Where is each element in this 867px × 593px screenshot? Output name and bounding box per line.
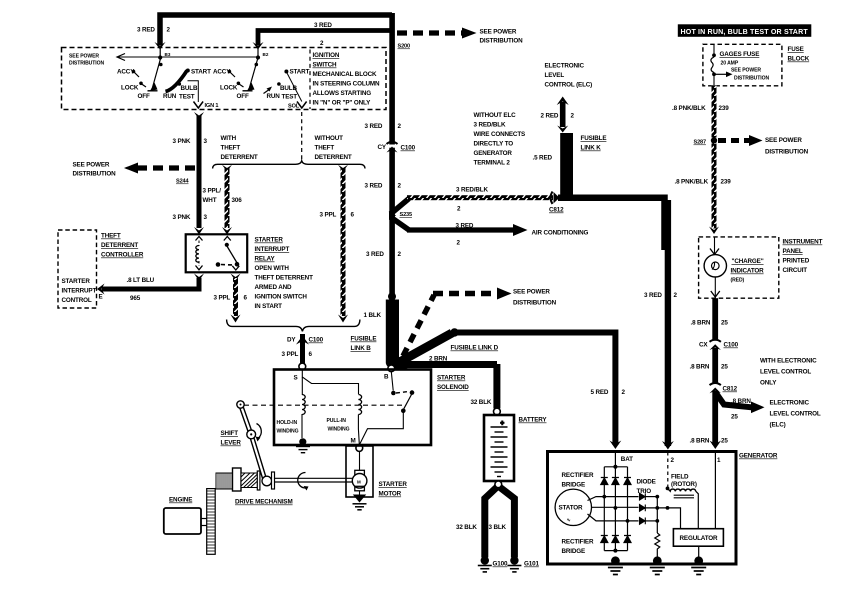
svg-text:FUSE: FUSE xyxy=(788,46,804,53)
svg-text:FUSIBLE: FUSIBLE xyxy=(581,135,607,142)
svg-text:3 RED: 3 RED xyxy=(456,223,474,230)
wire 3 RED (ignition B2 feed) xyxy=(253,31,391,50)
svg-text:LEVEL: LEVEL xyxy=(545,72,565,79)
contact BULB TEST (right switch) xyxy=(277,82,297,100)
svg-text:.8 BRN: .8 BRN xyxy=(690,438,710,445)
svg-text:LOCK: LOCK xyxy=(220,85,238,92)
diode trio xyxy=(640,493,646,524)
svg-text:RELAY: RELAY xyxy=(255,256,276,263)
connector DY C100 xyxy=(287,336,324,345)
wire 3 RED/BLK branch to C812 xyxy=(391,187,554,215)
label field rotor xyxy=(671,474,697,489)
contact START (right switch) xyxy=(284,69,309,76)
rectifier bridge rails xyxy=(604,467,627,551)
svg-text:306: 306 xyxy=(232,197,243,204)
contact LOCK (right switch) xyxy=(220,82,244,92)
svg-text:DIODE: DIODE xyxy=(637,479,656,486)
svg-text:3 PPL: 3 PPL xyxy=(282,351,299,358)
svg-text:239: 239 xyxy=(719,105,730,112)
wire middle phase to regulator xyxy=(668,508,681,529)
svg-text:HOT IN RUN, BULB TEST OR START: HOT IN RUN, BULB TEST OR START xyxy=(681,28,809,36)
ground (resistor) xyxy=(650,556,665,574)
armature shaft to motor xyxy=(275,478,353,482)
svg-text:E: E xyxy=(99,294,103,301)
wire .8 BRN below instrument panel xyxy=(691,298,729,341)
battery negative terminal xyxy=(495,481,502,488)
label starter motor xyxy=(379,481,408,498)
svg-text:S244: S244 xyxy=(176,179,190,185)
ground G101 xyxy=(507,556,539,572)
gages fuse xyxy=(711,45,759,86)
wire 3 PPL without-theft branch xyxy=(320,165,355,323)
label with electronic level control only xyxy=(760,358,817,387)
arrow see power distribution (center dashed) xyxy=(403,288,557,357)
svg-text:2 RED: 2 RED xyxy=(541,113,559,120)
ignition switch box xyxy=(62,48,387,110)
connector CX C100 xyxy=(699,340,739,350)
note without ELC xyxy=(474,112,526,167)
arc run-to-start (left switch) xyxy=(166,71,188,92)
svg-text:3 PPL: 3 PPL xyxy=(214,295,231,302)
svg-text:CY: CY xyxy=(378,144,387,151)
ignition switch pole B3 xyxy=(148,47,171,91)
rotation arrow on shaft xyxy=(298,473,309,491)
svg-text:STARTER: STARTER xyxy=(437,375,466,382)
mechanical dashed link shift lever to contact xyxy=(244,404,402,406)
wire SOL output xyxy=(287,73,307,110)
svg-text:START: START xyxy=(191,69,211,76)
node S287 with arrow see power distribution xyxy=(694,135,809,156)
generator terminal 2 xyxy=(668,452,675,487)
svg-text:B: B xyxy=(384,374,389,381)
generator box xyxy=(548,452,778,565)
wire 306 (3 PPL/WHT) xyxy=(222,165,232,235)
contact RUN (left switch) xyxy=(163,93,177,100)
svg-text:THEFT: THEFT xyxy=(221,145,241,152)
svg-text:.8 BRN: .8 BRN xyxy=(691,320,711,327)
brace with/without theft deterrent xyxy=(213,161,365,169)
relay coil xyxy=(196,237,203,270)
svg-text:DISTRIBUTION: DISTRIBUTION xyxy=(513,300,557,307)
phase junction dots xyxy=(602,495,669,523)
svg-text:ELECTRONIC: ELECTRONIC xyxy=(545,63,585,70)
banner hot in run bulb test or start xyxy=(678,24,812,37)
label starter interrupt relay note xyxy=(255,237,314,311)
label diode trio xyxy=(637,479,656,496)
svg-text:3 RED: 3 RED xyxy=(137,27,155,34)
svg-text:LEVER: LEVER xyxy=(221,440,242,447)
ground G100 xyxy=(478,556,508,572)
flywheel ring gear xyxy=(207,489,216,555)
starter motor enclosure xyxy=(346,446,373,497)
svg-text:WINDING: WINDING xyxy=(328,427,350,433)
brace joining 3 PPL wires xyxy=(227,320,360,332)
svg-text:M: M xyxy=(351,438,356,445)
drive mechanism thrust washer xyxy=(257,471,260,490)
contact OFF (left switch) xyxy=(138,93,150,100)
svg-text:DISTRIBUTION: DISTRIBUTION xyxy=(69,61,104,67)
wire 3 PNK ignition to relay xyxy=(194,112,204,235)
svg-text:OPEN WITH: OPEN WITH xyxy=(255,265,290,272)
svg-text:RECTIFIER: RECTIFIER xyxy=(562,539,594,546)
label hold-in winding xyxy=(277,420,299,435)
svg-text:WITH ELECTRONIC: WITH ELECTRONIC xyxy=(760,358,817,365)
svg-text:GENERATOR: GENERATOR xyxy=(739,453,778,460)
svg-text:SOLENOID: SOLENOID xyxy=(437,384,469,391)
field rotor winding xyxy=(666,487,699,529)
label 3 RED 2 (below C100) xyxy=(365,183,402,190)
svg-text:SEE POWER: SEE POWER xyxy=(69,54,99,60)
wire .8 BRN branch to ELC xyxy=(715,392,764,421)
svg-text:25: 25 xyxy=(721,320,728,327)
svg-text:+: + xyxy=(501,421,505,427)
svg-text:G101: G101 xyxy=(524,561,539,568)
pull-in winding coil xyxy=(358,395,361,445)
drive mechanism collar flange xyxy=(272,472,275,489)
svg-text:PANEL: PANEL xyxy=(783,248,803,255)
svg-text:RUN: RUN xyxy=(267,93,281,100)
wire 3 RED branch to air conditioning xyxy=(391,217,589,247)
generator terminal BAT xyxy=(615,452,633,466)
svg-text:BLOCK: BLOCK xyxy=(788,56,810,63)
svg-text:SHIFT: SHIFT xyxy=(221,430,239,437)
svg-text:3 RED: 3 RED xyxy=(314,22,332,29)
svg-text:3 PNK: 3 PNK xyxy=(173,214,191,221)
svg-text:IGNITION: IGNITION xyxy=(313,52,340,59)
svg-text:FUSIBLE LINK D: FUSIBLE LINK D xyxy=(451,345,499,352)
svg-text:.8 PNK/BLK: .8 PNK/BLK xyxy=(675,179,709,186)
svg-text:LEVEL CONTROL: LEVEL CONTROL xyxy=(770,411,821,418)
wire dashed from SOL to brace xyxy=(301,112,303,160)
svg-text:20 AMP: 20 AMP xyxy=(721,61,739,67)
svg-text:(ROTOR): (ROTOR) xyxy=(671,481,697,488)
svg-text:WHT: WHT xyxy=(203,197,217,204)
svg-text:25: 25 xyxy=(721,364,728,371)
svg-text:C100: C100 xyxy=(401,145,416,152)
svg-text:3 RED/BLK: 3 RED/BLK xyxy=(456,187,488,194)
svg-text:1 BLK: 1 BLK xyxy=(364,312,382,319)
label 3 PPL/WHT 306 xyxy=(203,188,243,205)
drive mechanism pinion collar xyxy=(233,468,242,491)
wire .8 BRN to generator terminal 1 xyxy=(690,391,729,449)
label rectifier bridge (top) xyxy=(562,472,594,489)
svg-text:SEE POWER: SEE POWER xyxy=(73,162,110,169)
svg-text:IGN 1: IGN 1 xyxy=(205,103,219,109)
connector C812 (horizontal) xyxy=(549,192,564,214)
diodes upper bridge xyxy=(601,478,631,485)
svg-text:WIRE CONNECTS: WIRE CONNECTS xyxy=(474,131,526,138)
wire ignition feed line with left arrow xyxy=(117,54,258,61)
label see power distribution (in box) xyxy=(69,54,104,67)
stator xyxy=(555,489,591,525)
svg-text:WINDING: WINDING xyxy=(277,429,299,435)
fusible link K xyxy=(533,133,607,195)
svg-text:REGULATOR: REGULATOR xyxy=(680,535,719,542)
svg-text:DETERRENT: DETERRENT xyxy=(315,154,352,161)
svg-text:ONLY: ONLY xyxy=(760,380,777,387)
svg-text:IN START: IN START xyxy=(255,303,283,310)
svg-text:INDICATOR: INDICATOR xyxy=(731,268,765,275)
wire 32 BLK solenoid B to battery xyxy=(406,364,500,415)
wire 3 BLK battery to G101 xyxy=(489,487,515,558)
svg-text:OFF: OFF xyxy=(237,93,249,100)
node junction at solenoid B xyxy=(386,357,412,371)
svg-text:CIRCUIT: CIRCUIT xyxy=(783,267,808,274)
svg-text:ELECTRONIC: ELECTRONIC xyxy=(770,400,810,407)
hold-in winding coil xyxy=(299,395,306,446)
svg-text:LINK B: LINK B xyxy=(351,345,372,352)
svg-text:DISTRIBUTION: DISTRIBUTION xyxy=(734,76,769,82)
node S235 splice xyxy=(389,211,412,220)
svg-text:CX: CX xyxy=(699,342,708,349)
svg-text:LOCK: LOCK xyxy=(121,85,139,92)
theft deterrent controller box xyxy=(58,230,97,308)
svg-text:239: 239 xyxy=(721,179,732,186)
label ignition switch note xyxy=(310,50,380,110)
contact START (left switch) xyxy=(186,69,211,76)
svg-text:START: START xyxy=(290,69,310,76)
wire 2 RED to ELC xyxy=(541,97,575,133)
svg-text:S200: S200 xyxy=(398,44,411,50)
fusible link D diagonal xyxy=(396,328,499,364)
svg-text:RECTIFIER: RECTIFIER xyxy=(562,472,594,479)
label WITH THEFT DETERRENT xyxy=(221,135,258,161)
svg-text:M: M xyxy=(357,479,361,484)
svg-text:965: 965 xyxy=(130,295,141,302)
fusible link B xyxy=(351,300,400,364)
svg-text:STATOR: STATOR xyxy=(559,505,584,512)
drive mechanism overrunning clutch xyxy=(241,473,258,488)
svg-text:INTERRUPT: INTERRUPT xyxy=(62,288,97,295)
svg-text:IN "N" OR "P" ONLY: IN "N" OR "P" ONLY xyxy=(313,100,372,107)
diodes lower bridge xyxy=(601,536,631,543)
fuse block box xyxy=(703,44,810,86)
rail junction dots xyxy=(613,465,617,553)
svg-text:DRIVE MECHANISM: DRIVE MECHANISM xyxy=(235,499,293,506)
svg-text:3 PPL: 3 PPL xyxy=(320,212,337,219)
contact ACCY (right switch) xyxy=(213,69,235,78)
label 1 BLK xyxy=(364,312,382,319)
engine box xyxy=(164,497,201,535)
wire .8 BRN to C812 xyxy=(690,348,729,383)
svg-text:WITH: WITH xyxy=(221,135,237,142)
resistor xyxy=(655,533,660,558)
wire 3 RED top left (ignition B3 feed) xyxy=(155,15,393,50)
svg-text:STARTER: STARTER xyxy=(62,278,91,285)
svg-text:.8 BRN: .8 BRN xyxy=(731,398,751,405)
svg-text:3 RED: 3 RED xyxy=(644,292,662,299)
svg-text:3 PNK: 3 PNK xyxy=(173,138,191,145)
svg-text:S235: S235 xyxy=(400,212,413,218)
svg-text:BAT: BAT xyxy=(621,456,633,463)
battery plates xyxy=(491,421,508,477)
wire .8 LT BLU relay to controller xyxy=(97,274,204,303)
svg-text:C812: C812 xyxy=(723,386,738,393)
svg-text:HOLD-IN: HOLD-IN xyxy=(277,420,298,426)
svg-text:IGNITION SWITCH: IGNITION SWITCH xyxy=(255,294,308,301)
label charge indicator xyxy=(731,258,765,284)
starter interrupt relay box xyxy=(186,234,248,272)
svg-text:THEFT DETERRENT: THEFT DETERRENT xyxy=(255,275,314,282)
svg-text:FUSIBLE: FUSIBLE xyxy=(351,336,377,343)
svg-text:(RED): (RED) xyxy=(731,278,745,284)
svg-text:PULL-IN: PULL-IN xyxy=(327,418,347,424)
regulator box xyxy=(673,529,723,547)
svg-text:C100: C100 xyxy=(309,337,324,344)
solenoid terminal M xyxy=(351,438,363,452)
svg-text:32 BLK: 32 BLK xyxy=(471,399,492,406)
label shift lever xyxy=(221,430,242,447)
solenoid terminal S xyxy=(294,375,298,382)
label 3 RED 2 (above 1 BLK) xyxy=(366,251,402,258)
arrow see power distribution (fuse) xyxy=(716,68,770,82)
svg-text:B3: B3 xyxy=(165,52,171,57)
svg-text:DISTRIBUTION: DISTRIBUTION xyxy=(480,38,524,45)
svg-text:CONTROL (ELC): CONTROL (ELC) xyxy=(545,82,593,89)
svg-text:IN STEERING COLUMN: IN STEERING COLUMN xyxy=(313,81,381,88)
svg-text:S287: S287 xyxy=(694,140,707,146)
ignition switch pole B2 xyxy=(243,47,269,91)
solenoid internal wiring from S xyxy=(302,370,358,395)
charge indicator bulb xyxy=(704,237,726,298)
svg-text:.5 RED: .5 RED xyxy=(533,155,553,162)
label starter solenoid xyxy=(437,375,469,392)
arrow see power distribution (top) xyxy=(397,28,523,45)
contact ACCY (left switch) xyxy=(117,69,139,78)
svg-text:DISTRIBUTION: DISTRIBUTION xyxy=(765,149,809,156)
svg-text:DY: DY xyxy=(287,337,296,344)
svg-text:GAGES FUSE: GAGES FUSE xyxy=(720,51,760,58)
svg-text:PRINTED: PRINTED xyxy=(783,258,810,265)
svg-text:DISTRIBUTION: DISTRIBUTION xyxy=(73,171,117,178)
svg-text:.8 PNK/BLK: .8 PNK/BLK xyxy=(672,105,706,112)
svg-text:3 RED/BLK: 3 RED/BLK xyxy=(474,122,506,129)
connector CY C100 on main bus xyxy=(378,142,416,153)
wire .8 PNK/BLK upper xyxy=(672,86,729,138)
label 3 RED 2 (left vertical) xyxy=(137,27,171,34)
svg-text:RUN: RUN xyxy=(163,93,177,100)
svg-text:SOL: SOL xyxy=(288,104,300,110)
svg-text:TEST: TEST xyxy=(282,94,298,101)
svg-text:BULB: BULB xyxy=(181,85,198,92)
svg-text:B2: B2 xyxy=(263,52,269,57)
svg-text:3 PPL/: 3 PPL/ xyxy=(203,188,222,195)
svg-text:INTERRUPT: INTERRUPT xyxy=(255,246,290,253)
contact RUN (right switch) xyxy=(264,87,281,101)
wire IGN 1 output xyxy=(188,81,219,109)
svg-text:.8 LT BLU: .8 LT BLU xyxy=(127,277,155,284)
ground (BAT rail) xyxy=(608,556,623,574)
svg-text:SEE POWER: SEE POWER xyxy=(731,68,761,74)
svg-text:AIR CONDITIONING: AIR CONDITIONING xyxy=(532,230,589,237)
svg-text:THEFT: THEFT xyxy=(101,233,121,240)
label WITHOUT THEFT DETERRENT xyxy=(315,135,352,161)
node S200 xyxy=(398,44,411,50)
svg-text:S: S xyxy=(294,375,298,382)
label starter interrupt control xyxy=(62,278,103,304)
svg-text:32 BLK: 32 BLK xyxy=(456,524,477,531)
svg-text:DETERRENT: DETERRENT xyxy=(101,242,138,249)
svg-text:TEST: TEST xyxy=(179,94,195,101)
generator terminal 1 xyxy=(715,452,721,529)
svg-text:DIRECTLY TO: DIRECTLY TO xyxy=(474,141,514,148)
svg-text:WITHOUT ELC: WITHOUT ELC xyxy=(474,112,517,119)
svg-text:STARTER: STARTER xyxy=(255,237,284,244)
svg-text:TERMINAL 2: TERMINAL 2 xyxy=(474,160,511,167)
label drive mechanism xyxy=(235,499,293,506)
label 3 PNK 3 (lower) xyxy=(173,214,208,221)
label pull-in winding xyxy=(327,418,350,433)
contact BULB TEST (left switch) xyxy=(178,82,198,100)
relay contacts xyxy=(216,237,240,271)
connector C812 (right) xyxy=(710,383,738,393)
svg-text:WITHOUT: WITHOUT xyxy=(315,135,344,142)
svg-text:C100: C100 xyxy=(724,342,739,349)
contact LOCK (left switch) xyxy=(121,82,146,92)
label 3 RED 2 (B2 wire) xyxy=(314,22,332,47)
svg-text:GENERATOR: GENERATOR xyxy=(474,150,513,157)
svg-text:FIELD: FIELD xyxy=(671,474,689,481)
shift lever xyxy=(237,401,265,479)
wire 3 RED main vertical bus xyxy=(389,13,395,297)
label 3 RED 2 (above C100) xyxy=(365,123,402,130)
svg-text:.8 BRN: .8 BRN xyxy=(690,364,710,371)
svg-text:MECHANICAL BLOCK: MECHANICAL BLOCK xyxy=(313,71,378,78)
svg-text:BRIDGE: BRIDGE xyxy=(562,548,586,555)
solenoid terminal B xyxy=(384,374,389,381)
svg-text:ENGINE: ENGINE xyxy=(169,497,192,504)
svg-text:INSTRUMENT: INSTRUMENT xyxy=(783,239,823,246)
svg-text:25: 25 xyxy=(731,414,738,421)
node S244 with arrow see power distribution xyxy=(73,162,197,185)
engine to gear stub xyxy=(201,519,207,526)
wire 3 PPL relay to brace xyxy=(214,274,248,323)
svg-text:OFF: OFF xyxy=(138,93,150,100)
svg-text:3 RED: 3 RED xyxy=(365,123,383,130)
svg-text:∿: ∿ xyxy=(567,518,571,524)
drive mechanism splined shaft xyxy=(216,473,233,489)
svg-text:TRIO: TRIO xyxy=(637,488,652,495)
wire 32 BLK battery to G100 xyxy=(456,487,497,558)
wire 3 RED to generator terminal 2 xyxy=(558,198,678,450)
label 3 PNK 3 (upper) xyxy=(173,138,208,145)
label electronic level control ELC xyxy=(770,400,821,429)
svg-text:3 BLK: 3 BLK xyxy=(489,524,507,531)
svg-text:BRIDGE: BRIDGE xyxy=(562,482,586,489)
svg-text:DETERRENT: DETERRENT xyxy=(221,154,258,161)
label ELC (top) xyxy=(545,63,593,89)
svg-text:ARMED AND: ARMED AND xyxy=(255,284,292,291)
wire 5 RED to generator BAT xyxy=(454,333,626,450)
stator phase lines xyxy=(588,497,668,533)
svg-text:G100: G100 xyxy=(493,561,508,568)
svg-text:C812: C812 xyxy=(549,207,564,214)
drive mechanism shift collar ball xyxy=(262,476,272,486)
wire regulator to ground xyxy=(698,546,700,557)
ground (starter motor) xyxy=(353,495,367,510)
svg-text:THEFT: THEFT xyxy=(315,145,335,152)
svg-text:STARTER: STARTER xyxy=(379,481,408,488)
svg-text:CONTROL: CONTROL xyxy=(62,297,92,304)
label rectifier bridge (bottom) xyxy=(562,539,594,556)
battery box xyxy=(484,415,547,481)
svg-text:"CHARGE": "CHARGE" xyxy=(732,258,764,265)
instrument panel box xyxy=(699,237,779,298)
label theft deterrent controller xyxy=(101,233,144,259)
svg-text:LEVEL CONTROL: LEVEL CONTROL xyxy=(760,369,811,376)
svg-text:CONTROLLER: CONTROLLER xyxy=(101,252,144,259)
svg-text:LINK K: LINK K xyxy=(581,145,602,152)
